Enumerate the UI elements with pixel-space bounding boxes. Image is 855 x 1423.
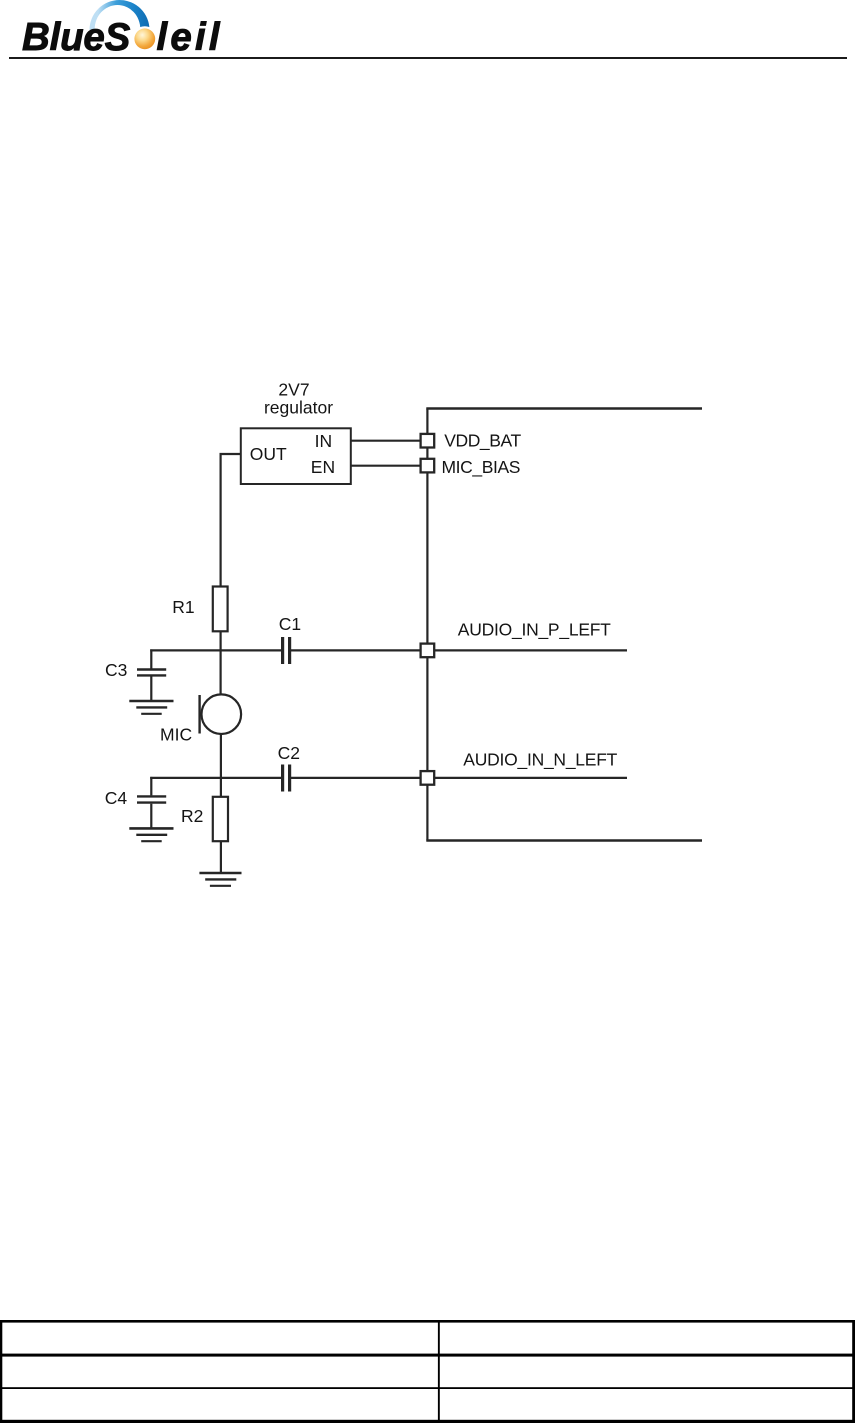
logo ball white halo [132,26,157,51]
wire vertical bus [426,409,428,841]
wire MIC bottom to R2 top through node [220,734,222,797]
terminal AUDIO_IN_N_LEFT [421,771,435,785]
svg-text:C1: C1 [279,614,301,634]
regulator U1 box [241,428,351,484]
wire C3 top lead [150,649,152,668]
capacitor C2 [283,765,290,792]
svg-text:EN: EN [311,457,335,477]
wire EN pin to MIC_BIAS terminal [351,465,420,467]
svg-text:C2: C2 [278,743,300,763]
ground for R2 [199,873,241,886]
svg-text:MIC_BIAS: MIC_BIAS [442,457,521,478]
svg-text:leil: leil [157,16,223,59]
capacitor C1 [283,637,290,664]
svg-text:AUDIO_IN_P_LEFT: AUDIO_IN_P_LEFT [458,620,611,641]
wire AUDIO_IN_P right segment [291,649,627,651]
table middle vertical border [438,1320,440,1423]
terminal VDD_BAT [421,434,435,448]
wire AUDIO_IN_N right segment [291,777,627,779]
svg-text:C4: C4 [105,788,128,808]
wire AUDIO_IN_N left segment [150,777,281,779]
table row divider 2 [0,1387,855,1389]
ground for C3 [129,701,173,714]
logo orange ball o [134,28,155,49]
microphone MIC [202,694,242,734]
wire R1 bottom to MIC top through node [220,631,222,694]
resistor R1 [213,587,228,632]
terminal AUDIO_IN_P_LEFT [421,644,435,658]
wire IN pin to VDD_BAT terminal [351,440,420,442]
microphone MIC front plate bar [198,695,200,734]
svg-text:R2: R2 [181,806,203,826]
svg-text:VDD_BAT: VDD_BAT [444,431,521,452]
svg-text:OUT: OUT [250,444,287,464]
wire OUT pin down to R1 [221,454,241,587]
wire top bus horizontal [426,407,702,410]
svg-text:C3: C3 [105,660,127,680]
svg-text:BlueS: BlueS [22,16,131,59]
svg-text:MIC: MIC [160,724,192,744]
svg-text:R1: R1 [172,597,194,617]
table bottom border [0,1420,855,1423]
wire R2 bottom to ground [220,841,222,872]
wire C3 bottom lead [150,676,152,700]
svg-text:AUDIO_IN_N_LEFT: AUDIO_IN_N_LEFT [463,750,617,771]
capacitor C4 [137,796,166,802]
table top border [0,1320,855,1323]
wire bottom bus horizontal [426,839,702,842]
terminal MIC_BIAS [421,459,435,473]
revision table [0,1320,855,1423]
ground for C4 [129,828,173,841]
wire C4 top lead [150,777,152,796]
table left border [0,1320,2,1423]
svg-text:2V7: 2V7 [278,379,309,399]
table right border [852,1320,855,1423]
wire AUDIO_IN_P left segment [150,649,281,651]
svg-text:regulator: regulator [264,397,333,417]
logo BlueSoleil swoosh arc [90,0,153,34]
header rule [9,57,847,59]
wire C4 bottom lead [150,804,152,828]
resistor R2 [213,797,228,841]
svg-text:IN: IN [315,431,333,451]
table row divider 1 [0,1354,855,1357]
capacitor C3 [137,670,166,676]
